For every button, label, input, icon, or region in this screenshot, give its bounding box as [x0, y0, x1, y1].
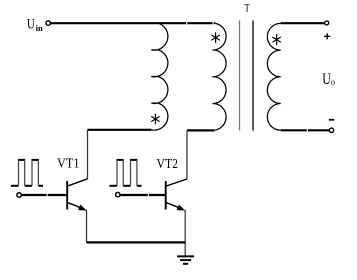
wire: W1 bottom horizontal [88, 129, 152, 131]
wire: VT1 collector vertical [87, 130, 89, 179]
input terminal (Uin) [46, 21, 50, 25]
transformer core line 1 [239, 21, 241, 131]
pulse waveform symbol at VT1 base [11, 160, 43, 186]
label Uin [27, 16, 43, 33]
wire: VT1 emitter vertical [86, 210, 88, 242]
transistor VT1 [67, 179, 87, 211]
svg-text:T: T [244, 0, 250, 14]
svg-text:U: U [27, 16, 35, 32]
polarity dot (asterisk) W1 [151, 114, 159, 125]
wire: Uin to transformer primary top [51, 22, 215, 24]
svg-text:VT2: VT2 [157, 157, 179, 172]
transformer T primary winding W2 [212, 23, 226, 130]
wire: VT2 collector vertical [186, 130, 188, 179]
label + [324, 33, 330, 39]
wire: secondary bottom to - terminal [281, 129, 330, 131]
wire joint nick (top wire) [186, 22, 187, 25]
transformer T secondary winding W3 [267, 23, 280, 130]
wire: VT2 base [120, 194, 165, 196]
svg-text:U: U [322, 69, 331, 88]
wire joint nick (VT2 base wire) [148, 194, 149, 197]
wire: secondary top to + terminal [281, 22, 325, 24]
pulse waveform symbol at VT2 base [109, 160, 141, 186]
wire: VT1 base [22, 194, 67, 196]
ground [177, 256, 194, 263]
VT1 base terminal [17, 193, 21, 197]
output terminal + [325, 21, 329, 25]
transformer T primary winding W1 [151, 23, 168, 130]
polarity dot (asterisk) W3 [272, 34, 280, 45]
wire: VT2 emitter vertical to ground [184, 210, 186, 256]
svg-text:in: in [36, 23, 43, 33]
svg-text:VT1: VT1 [57, 157, 80, 172]
wire: emitter common rail [87, 241, 186, 243]
wire: W2 bottom horizontal [187, 129, 214, 131]
wire joint nick (VT1 base wire) [47, 194, 48, 197]
label Uo [322, 69, 335, 88]
polarity dot (asterisk) W2 [211, 32, 219, 43]
svg-text:o: o [331, 78, 335, 88]
label minus [329, 119, 335, 121]
wire joint nick (top wire near W2) [213, 22, 214, 25]
transformer core line 2 [252, 21, 254, 131]
VT2 base terminal [116, 192, 120, 196]
output terminal - [329, 128, 333, 132]
wire joint nick (secondary bottom wire) [307, 129, 308, 132]
transistor VT2 [166, 179, 187, 211]
